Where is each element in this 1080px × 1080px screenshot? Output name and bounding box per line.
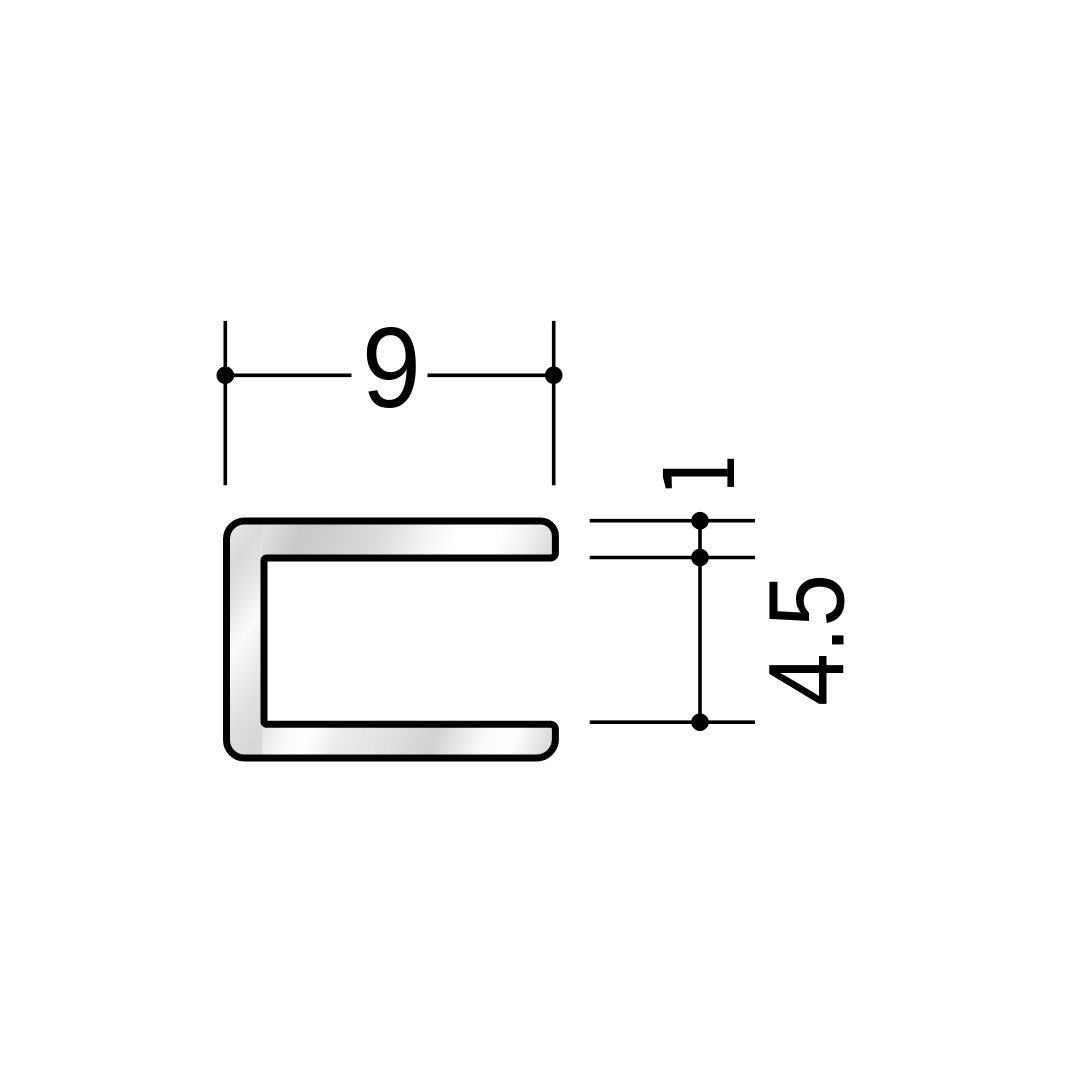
- width dim left dot: [217, 367, 235, 385]
- thickness dim: lower extension line: [590, 556, 755, 560]
- width dim line left segment: [225, 373, 351, 377]
- height dim: bottom extension line: [590, 720, 755, 724]
- vertical dimension line: [698, 521, 702, 723]
- width dim line right segment: [428, 373, 554, 377]
- C-channel profile outline: [227, 521, 556, 758]
- dot at inner bottom edge: [691, 713, 709, 731]
- width dim: left extension line: [224, 321, 228, 485]
- dot at inner top edge: [691, 549, 709, 567]
- width dim: right extension line: [552, 321, 556, 485]
- dot at top edge: [691, 512, 709, 530]
- width dim right dot: [545, 367, 563, 385]
- svg-text:9: 9: [362, 304, 421, 431]
- svg-text:4.5: 4.5: [746, 574, 867, 706]
- thickness label 1 (rotated digit drawn as path: stem, foot serif, flag): [663, 469, 728, 489]
- C-channel profile body fill (metallic sheen, per segment): [220, 518, 560, 761]
- thickness dim: upper extension line: [590, 519, 755, 523]
